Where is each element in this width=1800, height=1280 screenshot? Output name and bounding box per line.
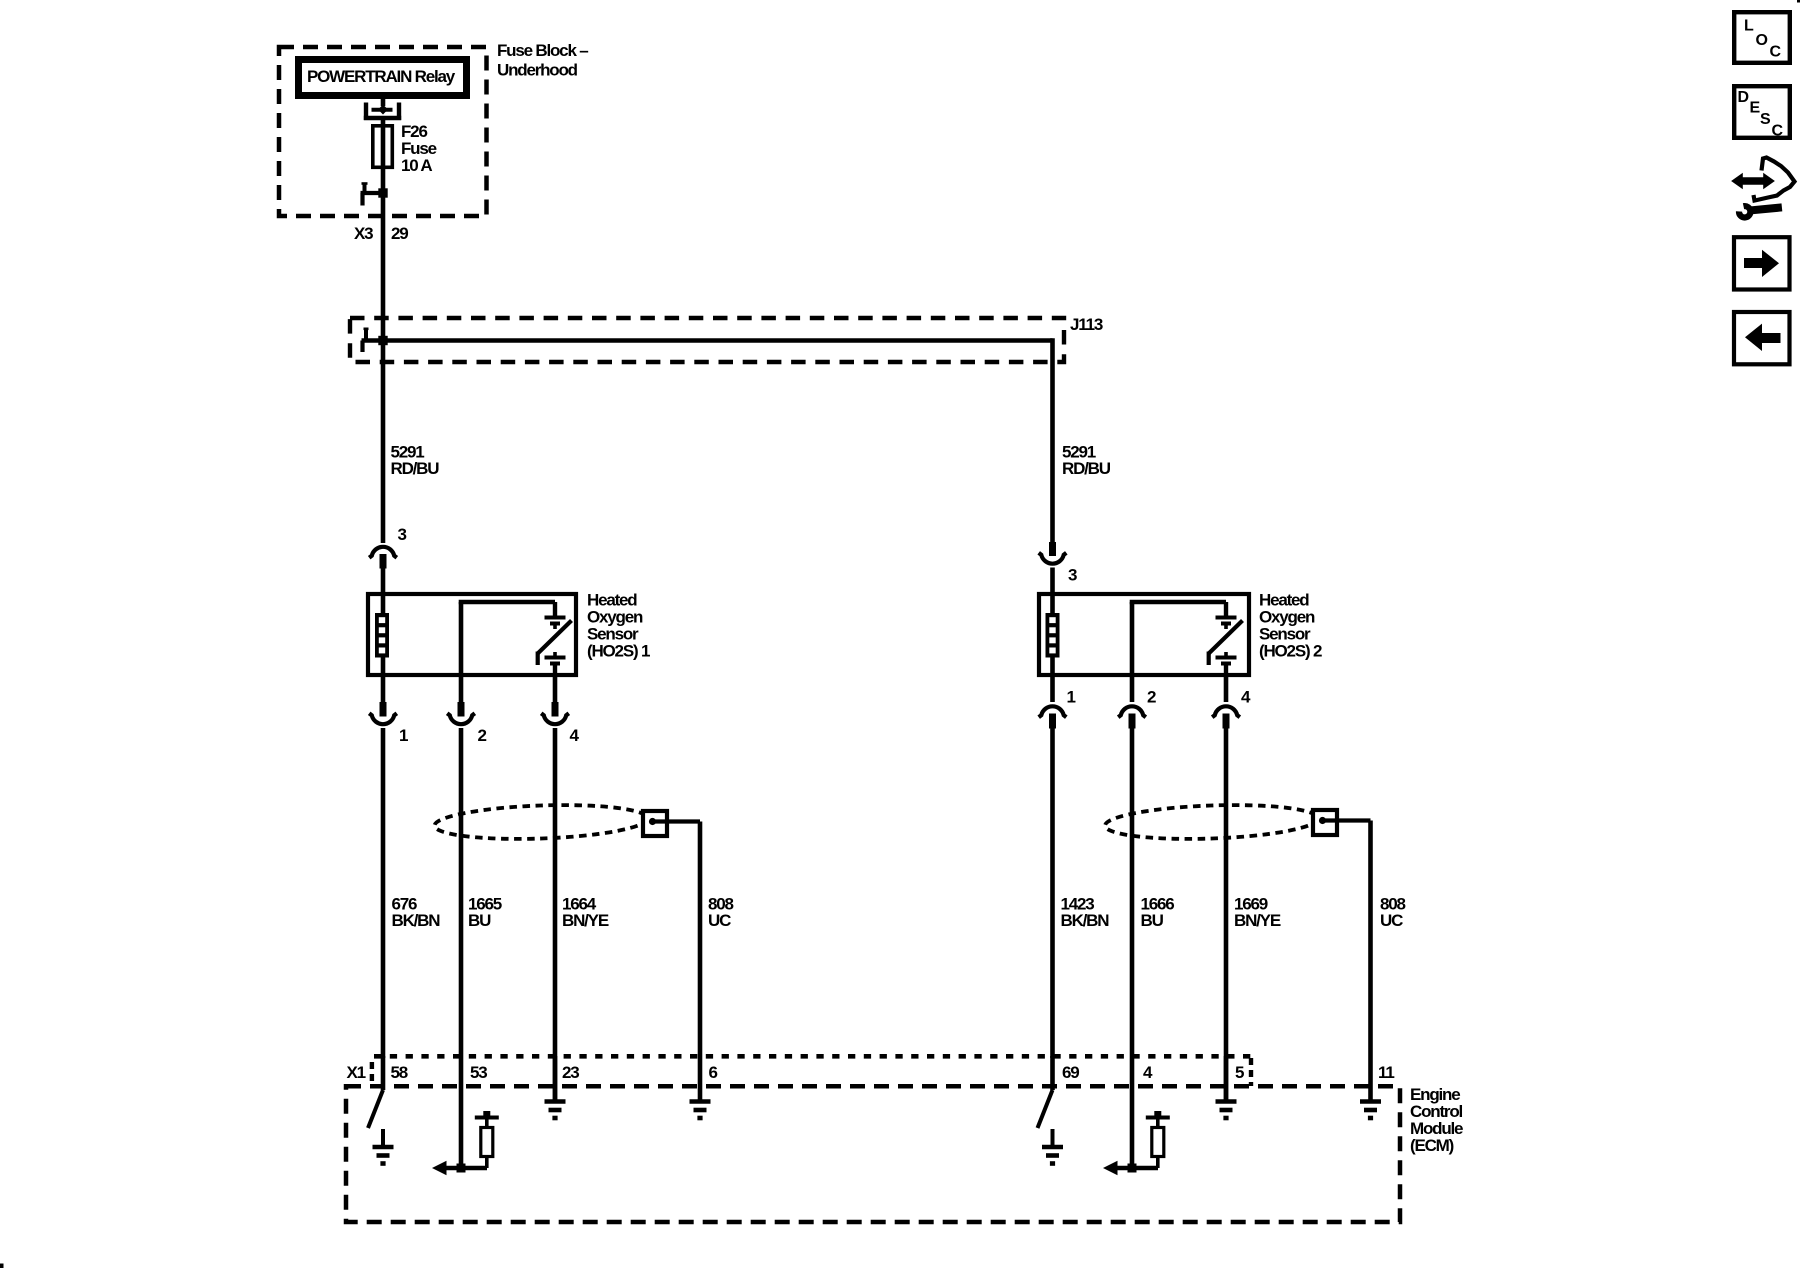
HO2S2 sense cell [1209,602,1243,677]
ECM ground pin 11 [1360,1102,1381,1119]
svg-text:BN/YE: BN/YE [1234,911,1281,930]
shield drain wire right to pin 11 [1368,821,1373,1104]
wire label 1669 BN/YE [1234,895,1281,931]
splice bus wire J113 [362,338,1053,343]
HO2S1 pin 1 connector [369,677,397,1058]
ECM pull-up resistor network pin 4 [1103,1111,1170,1175]
pin 4 label [1143,1063,1153,1082]
fuse output terminal symbol [361,183,388,206]
svg-text:2: 2 [478,726,487,745]
wire label 1666 BU [1141,895,1175,931]
J113 label [1070,315,1103,334]
svg-text:53: 53 [470,1063,487,1082]
shield termination box left [643,811,700,836]
HO2S2 pin 1 connector [1039,677,1067,1058]
fuse block label "Fuse Block - Underhood" [497,41,588,80]
wire label 808 UC right [1380,895,1406,931]
ECM switch to ground pin 69 [1038,1056,1064,1164]
sidebar icon forward arrow [1734,237,1790,289]
HO2S2 sensor box [1039,594,1249,675]
HO2S1 pin 4 connector [541,677,569,1103]
svg-text:1: 1 [399,726,408,745]
svg-text:Underhood: Underhood [497,61,578,80]
HO2S1 sensor box [368,594,576,675]
svg-text:Fuse Block –: Fuse Block – [497,41,588,60]
wire label 5291 RD/BU right [1062,443,1111,479]
relay output terminal bracket [364,103,401,121]
svg-text:1: 1 [1067,688,1076,707]
svg-text:3: 3 [1068,566,1077,585]
svg-text:RD/BU: RD/BU [1062,459,1111,478]
svg-text:6: 6 [709,1063,718,1082]
svg-text:L: L [1744,18,1754,35]
ECM connector X1 dotted line [372,1056,1251,1086]
svg-text:E: E [1750,100,1761,117]
HO2S1 label Heated Oxygen Sensor (HO2S) 1 [587,591,650,661]
wire J113 to HO2S2 pin 3 [1050,338,1055,543]
wire relay to output terminal [381,99,386,106]
HO2S2 pin 4 label [1241,688,1251,707]
HO2S2 heater element [1046,594,1060,677]
HO2S1 pin 2 connector [447,677,475,1168]
svg-text:RD/BU: RD/BU [391,459,440,478]
shield ellipse left [434,802,648,842]
svg-text:O: O [1756,32,1768,49]
svg-text:J113: J113 [1070,315,1103,334]
svg-text:BK/BN: BK/BN [392,911,441,930]
pin 53 label [470,1063,487,1082]
svg-text:POWERTRAIN Relay: POWERTRAIN Relay [307,67,456,86]
sidebar icon DESC [1734,86,1790,139]
sidebar icon LOC [1734,12,1790,63]
splice terminal symbol [363,328,369,352]
pin 5 label [1235,1063,1244,1082]
svg-text:UC: UC [708,911,731,930]
fuse block underhood dashed box [279,47,487,216]
svg-text:BU: BU [1141,911,1164,930]
HO2S2 pin 2 label [1147,688,1156,707]
svg-text:58: 58 [391,1063,408,1082]
wire J113 to HO2S1 pin 3 [381,341,386,544]
pin 58 label [391,1063,408,1082]
ECM switch to ground pin 58 [368,1056,394,1164]
ECM dashed box [346,1086,1400,1222]
splice pack J113 dashed box [350,318,1064,362]
page corner mark top right [1797,0,1800,3]
svg-text:S: S [1760,111,1771,128]
sidebar icon back arrow [1734,312,1790,364]
HO2S2 pin 4 connector [1212,677,1240,1103]
fuse label F26 Fuse 10 A [401,122,437,175]
svg-text:D: D [1738,89,1750,106]
sidebar icon electrical repair glyph [1733,158,1795,218]
HO2S1 heater element [375,594,389,677]
pin 69 label [1062,1063,1079,1082]
X1 label [347,1063,366,1082]
svg-text:BK/BN: BK/BN [1061,911,1110,930]
HO2S2 pin 2 connector [1118,677,1146,1168]
ECM pull-up resistor network pin 53 [432,1111,499,1175]
wire label 1664 BN/YE [562,895,609,931]
HO2S1 sense cell [538,602,572,677]
HO2S2 internal wire pin2 to sense cell [1130,602,1226,675]
pin 23 label [562,1063,579,1082]
ECM ground pin 6 [690,1102,711,1119]
wire label 676 BK/BN [392,895,441,931]
HO2S2 label Heated Oxygen Sensor (HO2S) 2 [1259,591,1322,661]
shield termination box right [1313,810,1371,835]
svg-text:11: 11 [1378,1063,1394,1082]
svg-text:BN/YE: BN/YE [562,911,609,930]
svg-text:69: 69 [1062,1063,1079,1082]
shield drain wire left to pin 6 [698,822,703,1104]
svg-text:(HO2S) 2: (HO2S) 2 [1259,642,1322,661]
svg-text:3: 3 [398,525,407,544]
ECM ground pin 5 [1216,1056,1237,1118]
svg-text:23: 23 [562,1063,579,1082]
wire terminal to fuse [381,118,386,169]
svg-text:10 A: 10 A [401,156,432,175]
HO2S1 internal wire pin2 to sense cell [459,602,555,675]
svg-text:2: 2 [1147,688,1156,707]
junction at J113 left wire [378,336,387,345]
svg-text:C: C [1772,123,1784,140]
svg-text:5: 5 [1235,1063,1244,1082]
svg-text:29: 29 [391,224,408,243]
shield ellipse right [1104,802,1318,842]
page mark bottom left [0,1264,4,1269]
pin 11 label [1378,1063,1394,1082]
svg-text:BU: BU [468,911,491,930]
HO2S1 pin 3 label [398,525,407,544]
svg-text:(HO2S) 1: (HO2S) 1 [587,642,650,661]
HO2S2 pin 3 in-line connector [1039,542,1067,594]
relay K POWERTRAIN Relay box [299,60,467,96]
svg-text:UC: UC [1380,911,1403,930]
svg-text:X1: X1 [347,1063,366,1082]
wire label 5291 RD/BU left [391,443,440,479]
wire label 808 UC left [708,895,734,931]
HO2S2 pin 3 label [1068,566,1077,585]
svg-text:C: C [1770,44,1782,61]
fuse F26 10A [373,126,393,168]
HO2S1 pin 2 label [478,726,487,745]
HO2S1 pin 3 in-line connector [369,547,397,594]
svg-text:X3: X3 [354,224,373,243]
pin 6 label [709,1063,718,1082]
wire fuse to fuse block exit [381,169,386,340]
wire label 1665 BU [468,895,502,931]
HO2S2 pin 1 label [1067,688,1076,707]
HO2S1 pin 4 label [570,726,580,745]
HO2S1 pin 1 label [399,726,408,745]
wire label 1423 BK/BN [1061,895,1110,931]
ECM ground pin 23 [545,1056,566,1118]
connector label X3 pin 29 [354,224,408,243]
svg-text:(ECM): (ECM) [1410,1136,1454,1155]
ECM label Engine Control Module (ECM) [1410,1085,1463,1155]
